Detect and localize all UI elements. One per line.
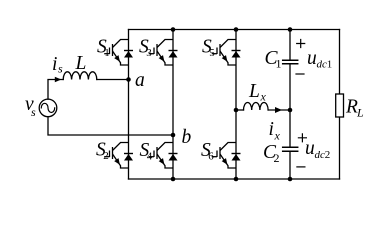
svg-text:s: s <box>31 105 36 119</box>
svg-text:u: u <box>305 138 315 159</box>
svg-text:x: x <box>260 90 267 104</box>
svg-text:a: a <box>135 70 145 91</box>
svg-text:x: x <box>274 129 281 143</box>
svg-text:4: 4 <box>147 151 153 163</box>
svg-text:L: L <box>356 106 364 120</box>
svg-text:dc: dc <box>317 59 328 71</box>
svg-text:L: L <box>248 81 260 102</box>
svg-text:s: s <box>58 62 63 76</box>
svg-text:2: 2 <box>103 150 109 162</box>
svg-text:1: 1 <box>276 57 282 71</box>
svg-text:5: 5 <box>209 47 215 59</box>
svg-text:1: 1 <box>327 59 333 71</box>
svg-text:2: 2 <box>325 149 331 161</box>
svg-text:L: L <box>75 53 87 74</box>
svg-text:1: 1 <box>104 47 110 59</box>
svg-text:i: i <box>269 119 274 140</box>
svg-text:b: b <box>182 127 192 148</box>
svg-text:2: 2 <box>274 151 280 165</box>
svg-text:u: u <box>307 48 317 69</box>
svg-text:6: 6 <box>208 151 214 163</box>
svg-text:dc: dc <box>315 149 326 161</box>
svg-text:i: i <box>52 54 57 75</box>
svg-text:3: 3 <box>146 47 152 59</box>
